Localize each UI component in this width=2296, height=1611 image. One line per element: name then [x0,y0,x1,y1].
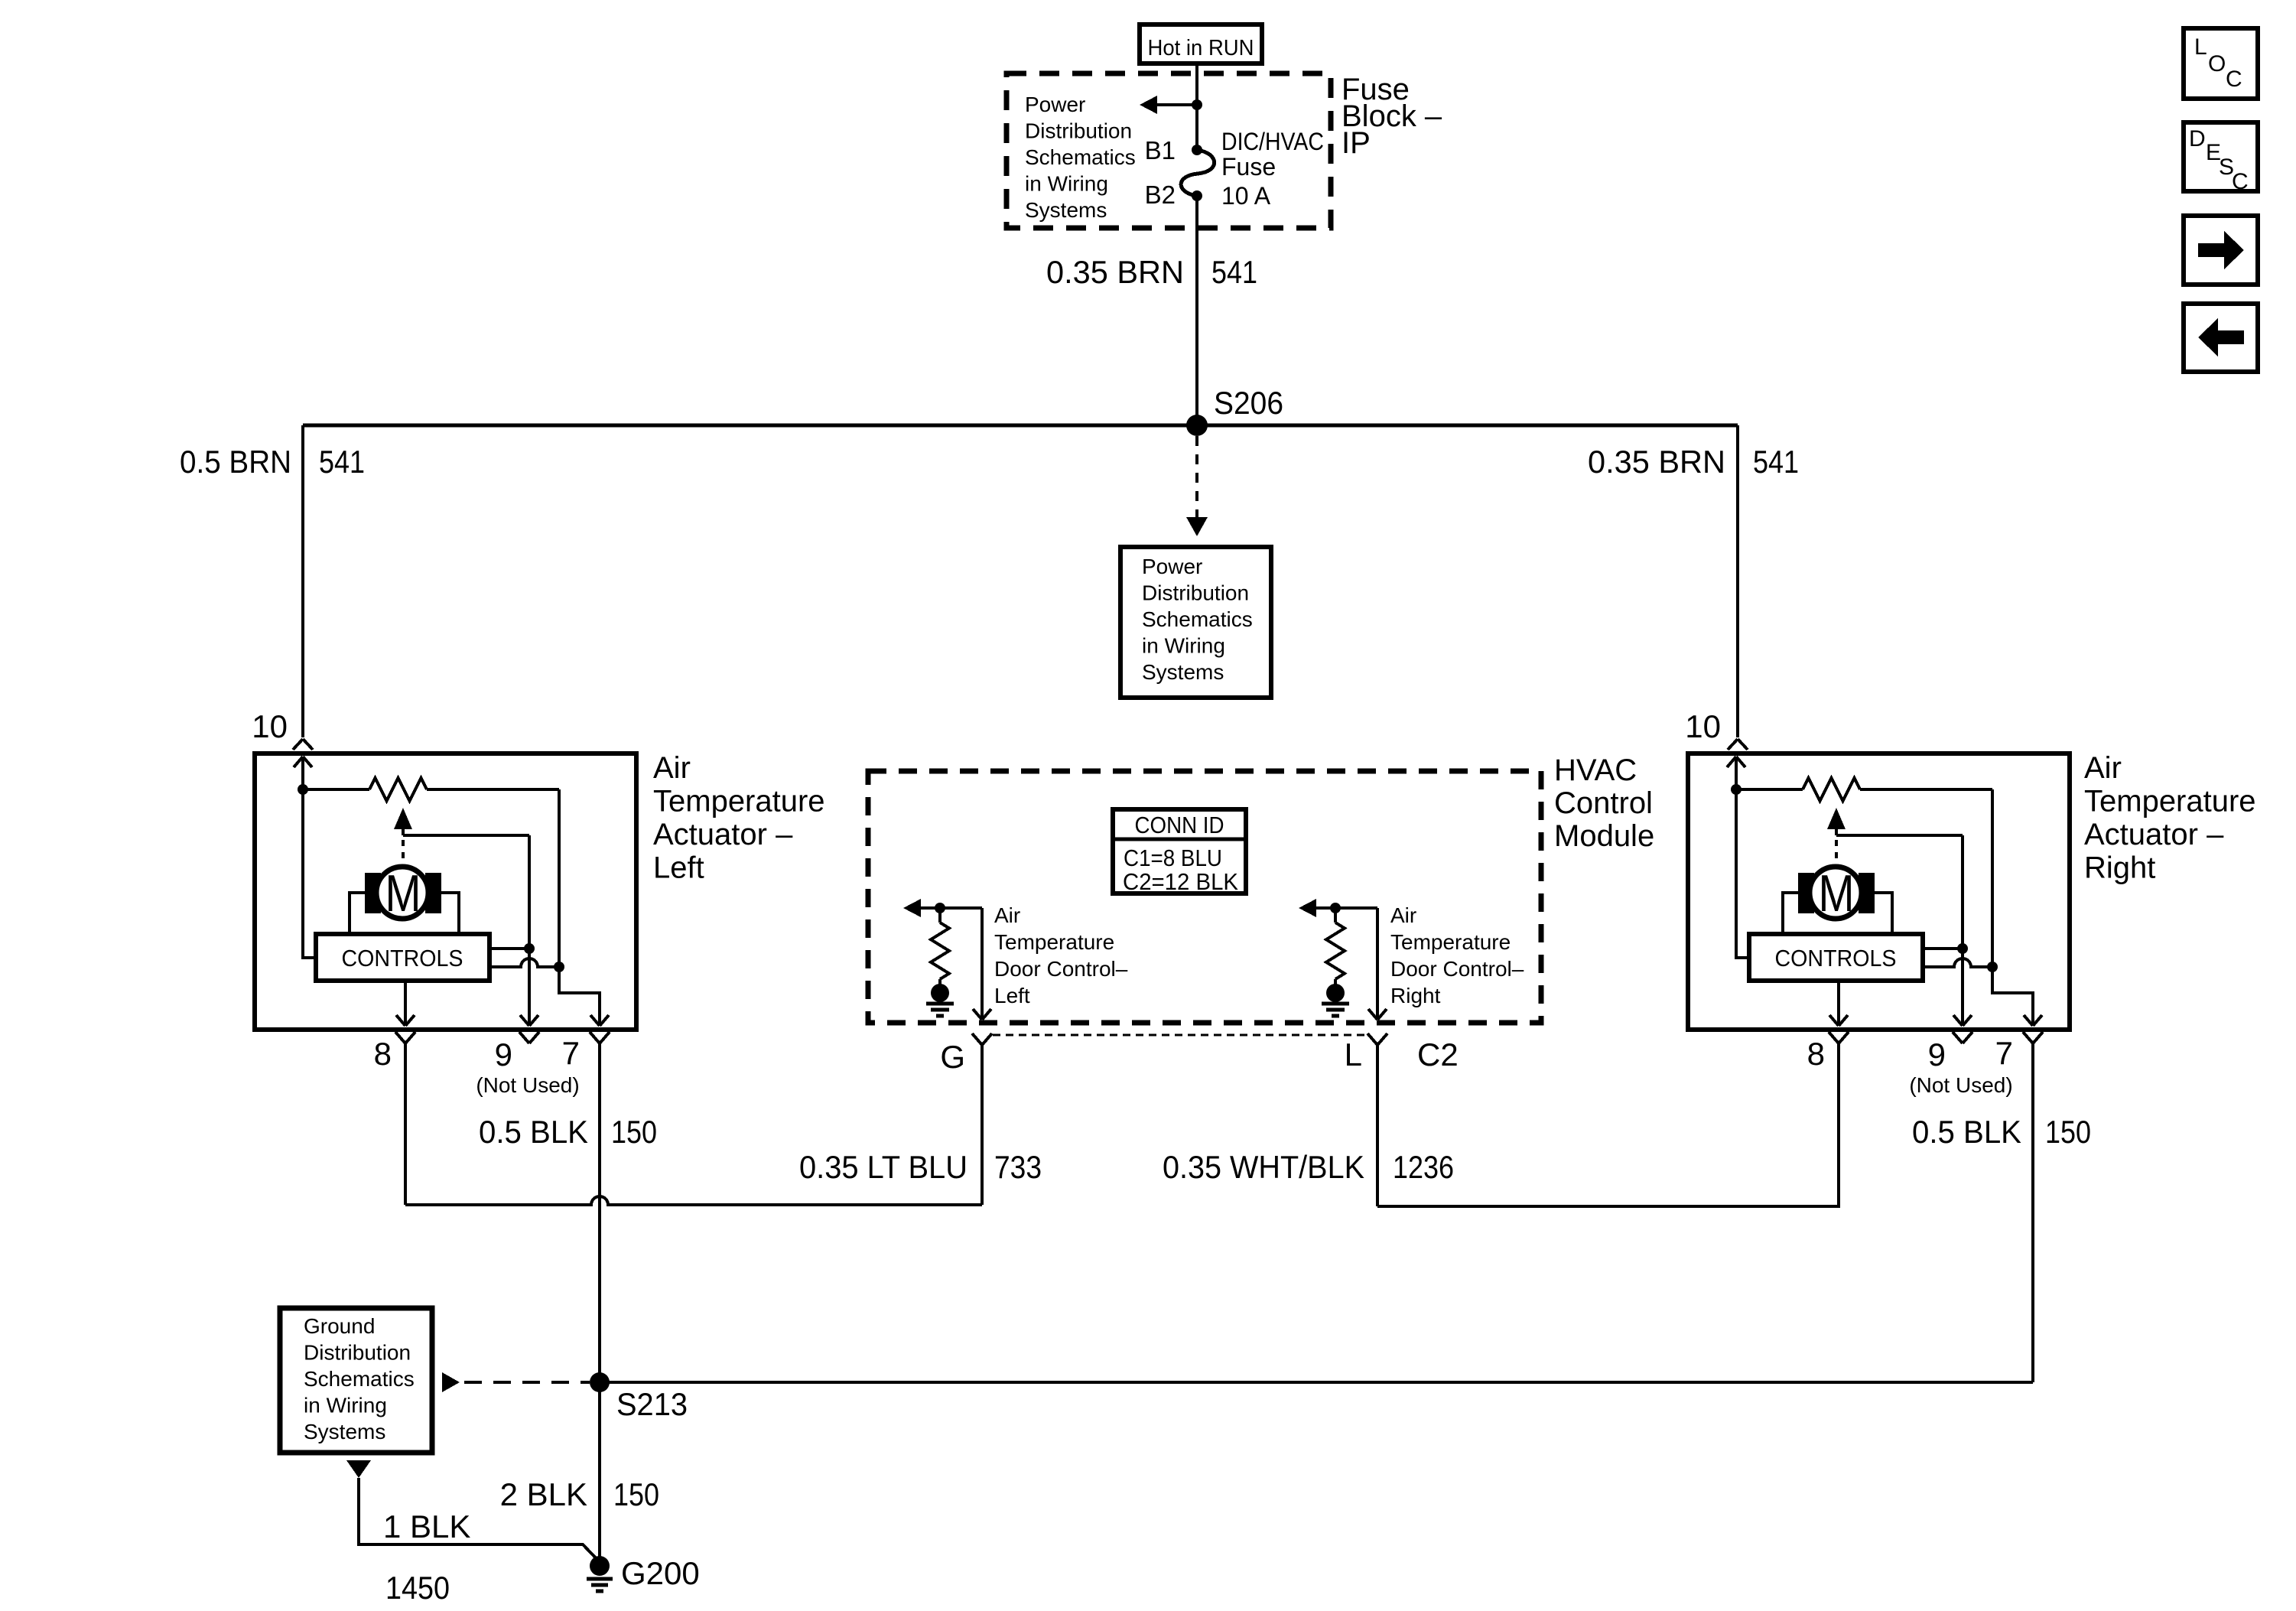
svg-text:in Wiring: in Wiring [304,1394,387,1417]
connector chevron pin 9 not used (Right) [1953,1032,1972,1043]
svg-text:1236: 1236 [1393,1149,1454,1185]
svg-text:C: C [2226,67,2242,92]
wire - controls lower output with hop (Right) [1923,958,1992,967]
dashed mechanical link wiper to motor (Left) [402,840,405,864]
motor M (Left) [365,864,441,923]
svg-text:0.35 BRN: 0.35 BRN [1046,254,1184,290]
wire 541 left drop to left actuator pin 10 [301,425,304,737]
value label DIC/HVAC Fuse 10 A [1221,128,1324,210]
wire label 0.5 BLK 150 (left) [479,1114,657,1150]
module dashed outline HVAC Control Module [868,771,1541,1023]
svg-text:DIC/HVAC: DIC/HVAC [1221,128,1324,155]
svg-text:Temperature: Temperature [2084,785,2256,819]
svg-text:Temperature: Temperature [653,785,825,819]
wire - step to pin 7 (Left) [559,967,600,1026]
wire label 0.35 WHT/BLK 1236 [1163,1149,1454,1185]
connector chevron pin 8 (Left) [395,1032,415,1043]
svg-text:L: L [2194,34,2207,60]
svg-text:C2: C2 [1417,1037,1459,1072]
wire label 1450 [385,1570,450,1606]
svg-text:9: 9 [1928,1037,1946,1072]
internal junction node (Right) [1731,784,1742,795]
svg-text:CONN ID: CONN ID [1135,812,1224,838]
svg-text:C2=12 BLK: C2=12 BLK [1123,868,1238,895]
wire - controls to pin 8 (Right) [1837,981,1840,1026]
arrow below ground distribution box [346,1460,371,1478]
svg-text:Module: Module [1554,819,1654,853]
wire - branch to power distribution (left arrow) [1157,103,1197,106]
svg-text:0.35 LT BLU: 0.35 LT BLU [799,1149,968,1185]
label Fuse Block - IP [1342,73,1442,160]
fuse F DIC/HVAC 10A element [1181,150,1215,196]
wire label 0.5 BLK 150 (right) [1912,1114,2091,1150]
pin label 10 (right actuator) [1685,708,1721,744]
svg-text:150: 150 [611,1114,657,1150]
controls block (Right) [1749,934,1923,981]
wire label 0.35 BRN 541 (right) [1588,444,1799,480]
wire label 1 BLK [383,1508,470,1544]
junction dot door control (Right) [1330,903,1341,913]
wire 541 bus - S206 horizontal run [303,424,1738,428]
svg-text:S206: S206 [1214,385,1283,421]
connector chevron pin L [1368,1033,1387,1045]
connector chevron pin 10 right [1728,739,1748,750]
label Air Temperature Actuator - Right [2084,751,2256,885]
reference box Power Distribution Schematics in Wiring Systems [1120,547,1271,698]
terminal B2 dot [1192,190,1202,201]
wire 733 - left actuator pin 8 to module pin G (with hop) [405,1196,982,1205]
pin label 7 (Left) [562,1035,580,1071]
ground symbol G200 [587,1579,613,1591]
arrow to power distribution schematics [1140,96,1157,114]
svg-text:Systems: Systems [304,1420,385,1443]
svg-text:Systems: Systems [1142,660,1224,684]
note (Not Used) pin 9 (Right) [1909,1073,2012,1097]
wire - node to resistor (Right) [1736,788,1803,791]
svg-text:Control: Control [1554,786,1653,820]
wire - pin leg down to module edge (Left) [981,908,984,1020]
icon box LOC [2184,28,2258,99]
junction node on feed [1192,99,1202,110]
wire - wiper branch to pin 9 leg (Right) [1836,834,1963,837]
svg-text:0.35 WHT/BLK: 0.35 WHT/BLK [1163,1149,1364,1185]
svg-text:C1=8 BLU: C1=8 BLU [1124,845,1222,871]
wire - internal node to controls left (Left) [303,789,316,958]
dashed reference wire to S213 [464,1381,590,1384]
terminal B1 dot [1192,145,1202,155]
wire 150 - left pin 7 down to splice S213 [598,1043,601,1563]
connector chevron pin 9 not used (Left) [519,1032,539,1043]
wire - resistor right leg down (Left) [558,789,561,967]
svg-text:Systems: Systems [1025,198,1107,222]
connector label C2 [1417,1037,1459,1072]
svg-text:0.35 BRN: 0.35 BRN [1588,444,1725,480]
icon box next arrow [2184,216,2258,285]
node label S213 [616,1386,688,1422]
wire - resistor top stub (Right) [1334,908,1337,923]
svg-text:Actuator –: Actuator – [2084,818,2224,851]
svg-text:150: 150 [613,1476,659,1512]
wire - resistor to right leg (Left) [427,788,559,791]
svg-text:541: 541 [319,444,365,480]
svg-text:Distribution: Distribution [304,1341,411,1365]
svg-text:B1: B1 [1145,136,1176,164]
svg-text:7: 7 [1995,1035,2013,1071]
wire - pin 9 leg down (Left) [528,835,531,1026]
svg-text:0.5 BRN: 0.5 BRN [180,444,291,480]
connector chevron pin G [972,1033,992,1045]
pin label B1 [1145,136,1176,164]
svg-text:C: C [2232,169,2249,194]
ground label G200 [621,1555,700,1591]
wire - junction to pin leg (Left) [940,906,982,910]
wire 150 - S213 horizontal run to right pin 7 [600,1381,2033,1384]
label Air Temperature Actuator - Left [653,751,825,885]
motor M (Right) [1798,864,1875,923]
wire - controls to pin 8 (Left) [404,981,407,1026]
wire 1236 - module pin L to right actuator pin 8 [1377,1043,1839,1206]
svg-text:IP: IP [1342,126,1371,160]
svg-text:Schematics: Schematics [1142,607,1253,631]
label Air Temperature Door Control - Right [1390,903,1524,1007]
svg-text:0.5 BLK: 0.5 BLK [1912,1114,2021,1150]
node label S206 [1214,385,1283,421]
note (Not Used) pin 9 (Left) [476,1073,579,1097]
pin label 9 (Right) [1928,1037,1946,1072]
junction dot controls/pin9 (Right) [1957,943,1968,954]
svg-text:Schematics: Schematics [1025,145,1136,169]
svg-text:Schematics: Schematics [304,1367,415,1391]
note text Power Distribution Schematics in Wiring Systems (fuse block) [1025,93,1136,222]
table CONN ID [1113,809,1246,895]
svg-text:Fuse: Fuse [1221,153,1276,181]
junction dot lower output (Right) [1987,962,1998,972]
svg-text:M: M [1819,864,1855,923]
pin label G [940,1039,965,1075]
wire label 2 BLK 150 [500,1476,659,1512]
svg-text:Temperature: Temperature [1390,930,1511,954]
wire - internal node to controls left (Right) [1736,789,1749,958]
wire 1236 - pin L leg down [1376,1045,1379,1206]
internal junction node (Left) [298,784,308,795]
svg-text:Ground: Ground [304,1314,375,1338]
svg-text:Air: Air [994,903,1020,927]
pin label 8 (Right) [1807,1036,1825,1072]
wire label 0.5 BRN 541 (left) [180,444,365,480]
pin 10 entry arrow inside box (Right) [1727,757,1745,767]
wire - resistor right leg down (Right) [1991,789,1994,967]
connector chevron pin 7 (Left) [590,1032,610,1043]
svg-text:1450: 1450 [385,1570,450,1606]
ground ball (Left) [931,984,949,1002]
component box Air Temperature Actuator - Left [255,753,636,1030]
wire - junction to pin leg (Right) [1335,906,1377,910]
wire - controls to pin 9 leg (Left) [489,947,529,950]
pin label B2 [1145,181,1176,209]
motor mounting bracket (Left) [350,893,459,934]
svg-text:Left: Left [653,851,704,885]
svg-text:2 BLK: 2 BLK [500,1476,587,1512]
arrow - internal control output (Left) [903,899,940,917]
wire - pin 10 to internal node (Right) [1735,757,1738,789]
wire label 0.35 LT BLU 733 [799,1149,1042,1185]
svg-text:G200: G200 [621,1555,700,1591]
wire - resistor top stub (Left) [938,908,941,923]
arrow from ground distribution box [442,1372,460,1392]
svg-text:in Wiring: in Wiring [1025,172,1108,196]
icon box back arrow [2184,304,2258,372]
pin 8 exit arrow (Right) [1829,1015,1848,1026]
svg-text:10: 10 [252,708,288,744]
svg-text:Air: Air [2084,751,2122,785]
splice S213 [590,1372,610,1392]
splice S206 [1186,415,1208,436]
svg-text:B2: B2 [1145,181,1176,209]
dashed reference wire S206 to power distribution box [1195,436,1198,517]
svg-text:L: L [1345,1037,1362,1072]
resistor - air temperature door control Right [1326,923,1345,979]
svg-text:in Wiring: in Wiring [1142,634,1225,658]
svg-text:Actuator –: Actuator – [653,818,793,851]
svg-text:Left: Left [994,984,1030,1007]
svg-text:G: G [940,1039,965,1075]
wire - step to pin 7 (Right) [1992,967,2033,1026]
reference box Ground Distribution Schematics in Wiring Systems [280,1308,432,1453]
svg-text:O: O [2208,51,2226,76]
pin 7 exit arrow (Right) [2024,1015,2042,1026]
wire 733 - pin G leg down [981,1045,984,1205]
resistor - potentiometer track (Right) [1803,778,1860,801]
pin 9 exit arrow (Left) [520,1015,538,1026]
pin label 9 (Left) [495,1037,512,1072]
wire 541 right drop to right actuator pin 10 [1736,425,1739,737]
svg-text:Power: Power [1142,555,1202,578]
svg-text:Hot in RUN: Hot in RUN [1148,36,1254,60]
power feed label Hot in RUN [1140,24,1262,63]
svg-text:10 A: 10 A [1221,182,1271,210]
wire - pin 8 left leg down [404,1043,407,1205]
svg-text:M: M [385,864,421,923]
svg-text:7: 7 [562,1035,580,1071]
svg-text:(Not Used): (Not Used) [1909,1073,2012,1097]
module pin exit arrow (Right) [1368,1009,1387,1020]
pin 9 exit arrow (Right) [1953,1015,1972,1026]
junction dot door control (Left) [935,903,945,913]
motor mounting bracket (Right) [1783,893,1892,934]
pin 8 exit arrow (Left) [396,1015,415,1026]
svg-text:9: 9 [495,1037,512,1072]
wire - resistor bottom stub (Right) [1334,979,1337,985]
svg-text:10: 10 [1685,708,1721,744]
arrow - internal control output (Right) [1299,899,1335,917]
controls block (Left) [316,934,489,981]
module pin exit arrow (Left) [973,1009,991,1020]
resistor - potentiometer track (Left) [369,778,427,801]
potentiometer wiper arrow (Right) [1827,808,1846,835]
svg-text:CONTROLS: CONTROLS [342,945,463,971]
wire - controls to pin 9 leg (Right) [1923,947,1963,950]
svg-text:541: 541 [1753,444,1799,480]
svg-text:Door Control–: Door Control– [994,957,1128,981]
svg-text:Temperature: Temperature [994,930,1114,954]
pin label L [1345,1037,1362,1072]
pin label 10 (left actuator) [252,708,288,744]
svg-text:D: D [2189,126,2206,151]
wire - wiper branch to pin 9 leg (Left) [403,834,529,837]
ground symbol (Left) [926,1004,954,1016]
svg-text:8: 8 [1807,1036,1825,1072]
ground ball (Right) [1326,984,1345,1002]
svg-text:Power: Power [1025,93,1085,116]
wire - controls lower output with hop (Left) [489,958,559,967]
wire 150 - right pin 7 leg down [2031,1043,2034,1382]
wire - resistor to right leg (Right) [1860,788,1992,791]
ground symbol (Right) [1322,1004,1349,1016]
wire - pin leg down to module edge (Right) [1376,908,1379,1020]
icon box DESC [2184,122,2258,194]
wire - Hot in RUN to fuse B1 [1195,63,1198,150]
arrowhead to power distribution box [1186,517,1208,536]
svg-text:CONTROLS: CONTROLS [1775,945,1897,971]
fuse block dashed outline Fuse Block - IP [1007,73,1331,228]
junction dot lower output (Left) [554,962,564,972]
svg-text:Right: Right [2084,851,2155,885]
label Air Temperature Door Control - Left [994,903,1128,1007]
wire label 0.35 BRN 541 (top) [1046,254,1257,290]
wire - node to resistor (Left) [303,788,369,791]
svg-text:541: 541 [1211,254,1257,290]
wire - resistor bottom stub (Left) [938,979,941,985]
svg-text:S213: S213 [616,1386,688,1422]
svg-text:(Not Used): (Not Used) [476,1073,579,1097]
svg-text:733: 733 [994,1149,1042,1185]
svg-text:0.5 BLK: 0.5 BLK [479,1114,588,1150]
wire - pin 10 to internal node (Left) [301,757,304,789]
connector chevron pin 7 (Right) [2023,1032,2043,1043]
svg-text:Distribution: Distribution [1025,119,1132,143]
label HVAC Control Module [1554,753,1654,853]
svg-text:Door Control–: Door Control– [1390,957,1524,981]
pin 7 exit arrow (Left) [590,1015,609,1026]
dashed mechanical link wiper to motor (Right) [1835,840,1838,864]
pin 10 entry arrow inside box (Left) [294,757,312,767]
component box Air Temperature Actuator - Right [1688,753,2070,1030]
svg-text:Air: Air [653,751,691,785]
connector dashed line below module [993,1034,1368,1037]
svg-text:Air: Air [1390,903,1416,927]
resistor - air temperature door control Left [931,923,949,979]
wire - pin 9 leg down (Right) [1961,835,1964,1026]
wire 541 - fuse B2 down to splice S206 [1195,196,1198,425]
wire 1450 - ground distribution to G200 [359,1478,600,1562]
pin label 8 (Left) [374,1036,392,1072]
svg-text:HVAC: HVAC [1554,753,1637,787]
svg-text:Distribution: Distribution [1142,581,1249,605]
potentiometer wiper arrow (Left) [394,808,412,835]
connector chevron pin 8 (Right) [1829,1032,1849,1043]
pin label 7 (Right) [1995,1035,2013,1071]
svg-text:8: 8 [374,1036,392,1072]
ground G200 ball [590,1556,610,1576]
junction dot controls/pin9 (Left) [524,943,535,954]
svg-text:Right: Right [1390,984,1441,1007]
svg-text:150: 150 [2045,1114,2091,1150]
svg-text:1 BLK: 1 BLK [383,1508,470,1544]
connector chevron pin 10 left [293,739,313,750]
